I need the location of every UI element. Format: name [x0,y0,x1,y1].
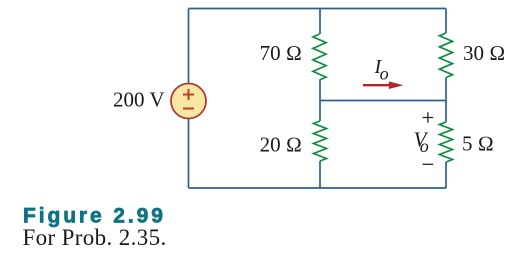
svg-text:70 Ω: 70 Ω [260,41,302,65]
current arrow Io [363,84,391,86]
source minus sign [183,108,194,110]
resistor 30 ohm zigzag [440,33,453,78]
svg-text:5 Ω: 5 Ω [462,132,494,156]
voltage source 200 V circle [171,84,206,119]
svg-text:o: o [420,136,429,156]
node plus label (Vo) [423,112,434,123]
wire right branch mid [445,78,447,123]
wire left lower [188,119,190,189]
wire top [189,8,447,10]
source plus sign [183,89,194,100]
wire bottom [189,187,447,189]
wire right branch top stub [445,9,447,34]
svg-text:o: o [380,63,389,83]
wire left upper [188,9,190,84]
svg-text:30 Ω: 30 Ω [463,41,505,65]
wire middle branch mid [319,80,321,121]
node minus label (Vo) [423,163,434,165]
wire middle branch top stub [319,9,321,35]
resistor 5 ohm zigzag [440,122,453,162]
resistor 70 ohm zigzag [313,34,326,80]
wire right branch bottom stub [445,162,447,188]
wire middle horizontal (node) [320,100,446,102]
resistor 20 ohm zigzag [314,121,327,161]
svg-text:20 Ω: 20 Ω [260,133,302,157]
svg-text:200 V: 200 V [113,88,165,112]
svg-text:For Prob. 2.35.: For Prob. 2.35. [23,225,167,250]
wire middle branch bottom stub [319,161,321,188]
